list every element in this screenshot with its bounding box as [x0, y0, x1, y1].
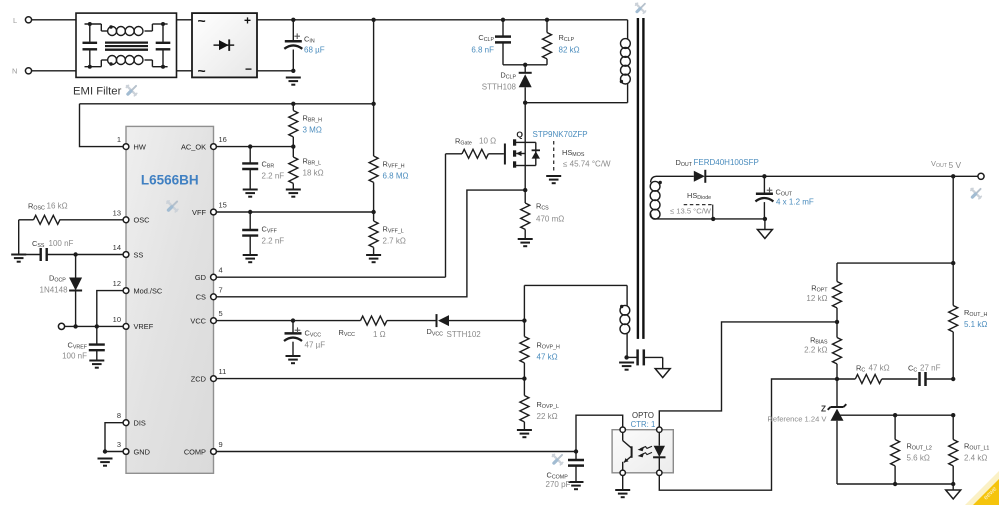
wire drain vertical — [524, 103, 526, 143]
resistor RCLP 82kohm — [543, 18, 552, 65]
svg-text:2.2 nF: 2.2 nF — [262, 237, 285, 246]
svg-text:5.6 kΩ: 5.6 kΩ — [907, 454, 930, 463]
diode DVCC STTH102 — [436, 314, 438, 327]
wire VCC row — [217, 320, 361, 322]
svg-text:~: ~ — [198, 13, 206, 29]
transformer secondary winding — [650, 176, 662, 219]
svg-text:~: ~ — [198, 63, 206, 79]
svg-text:3: 3 — [117, 440, 121, 449]
resistor RVFF_H 6.8Mohm — [369, 156, 378, 212]
svg-text:2.2 nF: 2.2 nF — [262, 172, 285, 181]
svg-text:68 µF: 68 µF — [304, 46, 325, 55]
transistor Q STP9NK70ZFP power MOSFET — [505, 139, 540, 190]
ground secondary at Y cap — [655, 369, 670, 378]
capacitor CC 27nF — [920, 372, 954, 386]
svg-text:GND: GND — [134, 447, 150, 456]
junction Vout / ROUT_H — [951, 174, 955, 178]
wire EMI filter to bridge (top) — [177, 19, 193, 21]
diode Z adjustable reference 1.24V — [828, 379, 847, 484]
ground at opto emitter — [615, 489, 630, 491]
pin 12 Mod./SC — [123, 288, 129, 294]
op-amp U1 L6566BH controller IC — [126, 126, 214, 473]
svg-text:CTR: 1: CTR: 1 — [631, 420, 656, 429]
svg-text:3 MΩ: 3 MΩ — [303, 126, 322, 135]
junction HSdiode return — [711, 217, 715, 221]
capacitor CIN 68uF — [284, 20, 302, 71]
svg-text:VCC: VCC — [190, 316, 206, 325]
junction ROUT_L1 top — [951, 413, 955, 417]
svg-text:GD: GD — [195, 273, 206, 282]
top bus wire to transformer — [293, 19, 627, 21]
svg-text:9: 9 — [219, 440, 223, 449]
pin 8 DIS — [123, 420, 129, 426]
junction ZCD / OVP divider — [522, 376, 526, 380]
svg-text:12: 12 — [113, 279, 121, 288]
wire Ccomp node to opto collector — [576, 415, 623, 451]
svg-text:1 Ω: 1 Ω — [373, 330, 386, 339]
resistor ROUT_L2 5.6kohm — [891, 415, 900, 484]
svg-text:470 mΩ: 470 mΩ — [536, 215, 564, 224]
capacitor CVREF 100nF — [89, 326, 105, 360]
resistor ROVP_L 22kohm — [520, 379, 529, 430]
junction bottom L1 — [951, 482, 955, 486]
wire opto emitter to ground — [622, 476, 624, 491]
EMI filter block — [76, 13, 177, 77]
junction Cout bottom — [763, 217, 767, 221]
svg-text:82 kΩ: 82 kΩ — [559, 46, 580, 55]
junction RBR_H top — [291, 102, 295, 106]
capacitor CVCC 47uF — [284, 321, 302, 356]
svg-text:DIS: DIS — [134, 419, 146, 428]
svg-text:EMI Filter: EMI Filter — [73, 86, 122, 98]
junction drain node — [523, 101, 527, 105]
pin 1 HW — [123, 144, 129, 150]
svg-text:5 V: 5 V — [949, 160, 962, 170]
ground secondary at feedback — [946, 484, 961, 499]
svg-text:ZCD: ZCD — [191, 374, 206, 383]
svg-text:16 kΩ: 16 kΩ — [47, 202, 68, 211]
wire L to EMI filter — [32, 19, 76, 21]
wire VFF row — [214, 211, 374, 213]
svg-text:18 kΩ: 18 kΩ — [303, 169, 324, 178]
wire ZCD row — [217, 378, 525, 380]
wire VREF row — [65, 325, 123, 327]
svg-text:Reference 1.24 V: Reference 1.24 V — [767, 415, 827, 424]
svg-text:L6566BH: L6566BH — [141, 173, 199, 188]
svg-text:+: + — [244, 14, 251, 28]
svg-text:47 kΩ: 47 kΩ — [869, 364, 890, 373]
wire Dout to Vout — [706, 175, 978, 177]
wire bottom return row — [837, 483, 953, 485]
pin opto anode — [657, 427, 662, 432]
svg-text:STTH102: STTH102 — [447, 330, 482, 339]
svg-text:22 kΩ: 22 kΩ — [537, 412, 558, 421]
pin 14 SS — [123, 252, 129, 258]
svg-text:Q: Q — [516, 130, 523, 140]
wire feedback top row — [837, 262, 953, 264]
svg-text:Mod./SC: Mod./SC — [134, 286, 163, 295]
junction CVCC — [291, 318, 295, 322]
wire GND pin — [105, 451, 123, 453]
capacitor Cout 4x1.2mF — [755, 176, 773, 219]
svg-text:2.7 kΩ: 2.7 kΩ — [383, 237, 406, 246]
svg-text:STP9NK70ZFP: STP9NK70ZFP — [533, 130, 588, 139]
svg-text:OPTO: OPTO — [632, 411, 654, 420]
junction VFF column top — [371, 102, 375, 106]
wire aux to VCC node — [523, 285, 525, 320]
junction SS / DOCP — [73, 252, 77, 256]
capacitor CCLP 6.8nF — [495, 18, 511, 65]
wire bridge + to top bus — [257, 19, 296, 21]
heatsink HSdiode — [684, 205, 713, 219]
svg-text:47 µF: 47 µF — [305, 341, 326, 350]
svg-text:14: 14 — [113, 243, 121, 252]
wire EMI filter to bridge (bottom) — [177, 70, 193, 72]
wire clamp to primary winding — [525, 102, 627, 104]
svg-text:CS: CS — [196, 293, 206, 302]
resistor ROPT 12kohm — [833, 263, 842, 322]
junction ROUT_H top — [951, 261, 955, 265]
svg-text:−: − — [245, 62, 252, 76]
resistor RC 47kohm — [837, 375, 917, 384]
svg-text:COMP: COMP — [184, 447, 206, 456]
junction ROUT_L2 top — [893, 413, 897, 417]
junction bottom L2 — [893, 482, 897, 486]
junction CVREF / VREF — [95, 324, 99, 328]
pin opto cathode — [657, 470, 662, 475]
pin 3 GND — [123, 449, 129, 455]
resistor RBIAS 2.2kohm — [833, 322, 842, 379]
bridge rectifier — [192, 13, 257, 79]
wire N to EMI filter — [32, 70, 76, 72]
wire opto anode to ROPT node — [659, 322, 837, 427]
svg-text:12 kΩ: 12 kΩ — [806, 294, 827, 303]
svg-text:AC_OK: AC_OK — [181, 142, 206, 151]
junction CBR top — [248, 144, 252, 148]
resistor RVCC 1ohm — [361, 316, 387, 325]
wire brownout sense bus (HW row) — [80, 103, 374, 105]
svg-text:8: 8 — [117, 411, 121, 420]
junction top bus at VFF divider — [371, 18, 375, 22]
diode DOCP 1N4148 — [69, 255, 82, 327]
pin opto emitter — [620, 470, 625, 475]
wire secondary bottom return — [653, 218, 765, 220]
pin 11 ZCD — [211, 376, 217, 382]
resistor RGate 10ohm — [446, 149, 504, 277]
resistor ROUT_L1 2.4kohm — [949, 415, 958, 484]
svg-text:2.4 kΩ: 2.4 kΩ — [964, 454, 987, 463]
op-amp OPTO coupler CTR 1 — [612, 430, 673, 473]
svg-text:FERD40H100SFP: FERD40H100SFP — [694, 158, 759, 167]
pin 13 OSC — [123, 217, 129, 223]
svg-text:10: 10 — [113, 315, 121, 324]
pin 16 AC_OK — [211, 144, 217, 150]
transformer primary winding — [620, 20, 631, 103]
junction VCC / aux node — [522, 318, 526, 322]
diode Dout FERD40H100SFP — [694, 171, 705, 182]
wire Vout to feedback top row — [952, 176, 954, 263]
junction source / CS sense — [523, 188, 527, 192]
svg-text:L: L — [13, 16, 17, 25]
heatsink HSmos — [546, 141, 561, 183]
pin 7 CS — [211, 294, 217, 300]
diode DCLP STTH108 — [519, 65, 532, 103]
resistor RCS 470mohm — [521, 190, 530, 239]
svg-text:270 pF: 270 pF — [546, 480, 571, 489]
junction ROPT / RBIAS / opto — [835, 320, 839, 324]
resistor RBR_H 3Mohm — [289, 104, 298, 147]
svg-text:N: N — [12, 67, 17, 76]
junction top bus at CIN — [291, 18, 295, 22]
svg-text:7: 7 — [219, 285, 223, 294]
svg-text:100 nF: 100 nF — [49, 239, 74, 248]
svg-text:47 kΩ: 47 kΩ — [537, 353, 558, 362]
svg-text:1N4148: 1N4148 — [40, 286, 69, 295]
transformer core — [637, 18, 639, 339]
wire CS sense to pin — [217, 190, 526, 297]
wire VFF column vertical — [373, 20, 375, 156]
svg-text:HW: HW — [134, 142, 146, 151]
capacitor CSS 100nF — [19, 248, 123, 261]
resistor ROSC 16kohm — [19, 215, 123, 254]
wire bridge - to CIN bottom — [257, 70, 293, 72]
svg-text:6.8 MΩ: 6.8 MΩ — [383, 172, 409, 181]
junction aux ground — [624, 355, 628, 359]
svg-text:SS: SS — [134, 250, 144, 259]
ground secondary at Cout — [757, 219, 772, 239]
capacitor CBR 2.2nF — [242, 147, 258, 190]
capacitor Y bridge pri-sec — [627, 349, 663, 368]
wire COMP row — [217, 451, 576, 453]
junction Ccomp / opto — [574, 449, 578, 453]
junction CVFF top — [248, 210, 252, 214]
ground at aux winding — [619, 362, 634, 364]
svg-text:2.2 kΩ: 2.2 kΩ — [804, 346, 827, 355]
svg-text:1: 1 — [117, 135, 121, 144]
junction CIN bottom — [291, 69, 295, 73]
wire Mod./SC to VREF — [97, 291, 123, 327]
svg-text:Z: Z — [821, 405, 826, 414]
junction ROUT_H / CC — [951, 377, 955, 381]
svg-text:100 nF: 100 nF — [62, 352, 87, 361]
svg-text:13: 13 — [113, 208, 121, 217]
junction DOCP / VREF — [73, 324, 77, 328]
ground at IC GND — [98, 458, 113, 460]
svg-text:≤ 45.74 °C/W: ≤ 45.74 °C/W — [563, 160, 611, 169]
wire opto cathode to TL431 node — [659, 379, 837, 490]
svg-text:27 nF: 27 nF — [920, 364, 941, 373]
junction RBR_L top — [291, 144, 295, 148]
node VREF terminal — [58, 323, 64, 329]
pin 4 GD — [211, 274, 217, 280]
resistor ROVP_H 47kohm — [520, 321, 529, 379]
wire DIS strap — [105, 423, 123, 452]
resistor ROUT_H 5.1kohm — [949, 263, 958, 379]
junction DIS/GND — [103, 449, 107, 453]
svg-text:4: 4 — [219, 266, 223, 275]
pin 15 VFF — [211, 209, 217, 215]
pin opto collector — [620, 427, 625, 432]
pin 9 COMP — [211, 449, 217, 455]
wire secondary top — [660, 175, 694, 177]
svg-text:15: 15 — [219, 201, 227, 210]
resistor RVFF_L 2.7kohm — [369, 212, 378, 255]
svg-text:6.8 nF: 6.8 nF — [471, 46, 494, 55]
junction RVFF divider — [371, 210, 375, 214]
junction RBIAS / RC / Z — [835, 377, 839, 381]
pin 10 VREF — [123, 324, 129, 330]
svg-text:10 Ω: 10 Ω — [479, 137, 496, 146]
svg-text:5.1 kΩ: 5.1 kΩ — [964, 320, 987, 329]
capacitor CVFF 2.2nF — [242, 212, 258, 255]
wire GD gate drive — [217, 276, 446, 278]
transformer aux winding — [524, 285, 629, 357]
svg-text:STTH108: STTH108 — [482, 83, 517, 92]
wire reference row — [837, 414, 953, 416]
svg-text:≤ 13.5 °C/W: ≤ 13.5 °C/W — [670, 207, 712, 216]
svg-text:VFF: VFF — [192, 208, 206, 217]
svg-text:11: 11 — [219, 367, 227, 376]
wire snubber bottom row — [503, 64, 547, 66]
pin 5 VCC — [211, 318, 217, 324]
resistor RBR_L 18kohm — [289, 147, 298, 190]
corner ribbon — [965, 471, 999, 505]
svg-text:5: 5 — [219, 309, 223, 318]
svg-text:VREF: VREF — [134, 322, 154, 331]
junction Cout top — [762, 174, 766, 178]
junction DCLP cathode — [523, 63, 527, 67]
ground at CIN — [286, 77, 301, 79]
svg-text:4 x 1.2 mF: 4 x 1.2 mF — [776, 198, 814, 207]
wire AC_OK row — [214, 146, 294, 148]
capacitor Ccomp 270pF — [568, 452, 584, 483]
svg-text:16: 16 — [219, 135, 227, 144]
svg-text:OSC: OSC — [134, 216, 151, 225]
wire HW pin to bus — [80, 104, 127, 147]
